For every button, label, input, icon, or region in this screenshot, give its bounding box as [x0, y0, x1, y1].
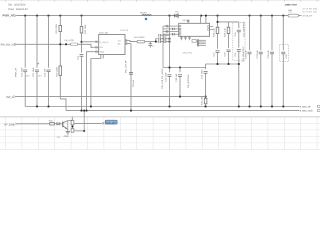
svg-text:PW_D: PW_D — [6, 96, 13, 99]
node — [83, 110, 85, 112]
wire hline A — [206, 63, 239, 65]
capacitor C11 — [80, 55, 84, 57]
svg-text:R12 100k: R12 100k — [84, 24, 87, 34]
resistor R12 — [81, 16, 83, 27]
svg-text:U21 LDO: U21 LDO — [99, 31, 108, 34]
port arrow — [15, 123, 17, 125]
resistor R28 — [217, 22, 219, 28]
wire — [81, 33, 83, 53]
svg-text:C21 10uF: C21 10uF — [20, 67, 23, 77]
node — [81, 41, 83, 43]
wire — [169, 76, 171, 106]
resistor r1 internal — [71, 120, 74, 125]
capacitor C30 — [238, 22, 240, 28]
wire — [179, 76, 181, 96]
capacitor C18 — [179, 68, 181, 73]
transistor Tr1 — [60, 123, 63, 125]
border ruler ticks — [6, 0, 318, 2]
resistor R40 — [50, 122, 54, 125]
capacitor C28 — [227, 50, 231, 52]
title block grid footer — [0, 117, 320, 150]
svg-text:R28 2.2k: R28 2.2k — [212, 27, 215, 37]
wire stub — [299, 15, 302, 17]
series capacitor C16 — [159, 40, 161, 43]
node — [238, 63, 240, 65]
wire — [83, 111, 85, 131]
inductor L2 — [137, 40, 145, 43]
wire column x48.5 — [48, 16, 50, 68]
svg-text:1uH L0603: 1uH L0603 — [134, 36, 145, 39]
dashed option box — [233, 22, 245, 60]
wire collector — [68, 120, 73, 122]
svg-text:C13 22uF: C13 22uF — [164, 72, 167, 82]
node — [179, 67, 181, 69]
diode D3 — [172, 14, 181, 18]
capacitor C33 — [248, 52, 252, 54]
U5 right pins — [210, 27, 214, 30]
resistor R45 — [288, 14, 299, 17]
pin number squares — [96, 40, 127, 53]
port arrow — [14, 14, 17, 16]
svg-text:SIG_BP: SIG_BP — [106, 121, 116, 124]
wire column x205.6 — [205, 64, 207, 69]
svg-text:Cin : 10uF/25V: Cin : 10uF/25V — [8, 4, 26, 7]
svg-text:U5 SW: U5 SW — [183, 19, 191, 22]
component small box — [192, 40, 196, 43]
border top line — [0, 0, 320, 2]
polarity mark — [38, 63, 39, 64]
wire column x25 lower — [24, 72, 26, 107]
wire column x249.5 — [249, 16, 251, 51]
svg-text:PW_1V8_RF: PW_1V8_RF — [125, 60, 128, 73]
wire — [54, 123, 56, 125]
rail1 nodes — [36, 106, 284, 108]
wire return — [74, 130, 84, 132]
svg-text:C35 1uF: C35 1uF — [267, 49, 270, 58]
capacitor C7 shunt — [149, 42, 151, 44]
node — [205, 15, 207, 17]
node — [65, 43, 67, 45]
wire — [130, 74, 132, 110]
svg-text:R21 100k: R21 100k — [55, 23, 58, 33]
IC U3 regulator — [99, 35, 125, 55]
GND rail — [25, 106, 299, 108]
node — [83, 130, 85, 132]
wire column x37 — [36, 16, 38, 68]
wire mid — [72, 125, 74, 129]
wire column x283.3 — [282, 16, 284, 51]
wire base — [18, 123, 50, 125]
svg-text:C12 C13: C12 C13 — [120, 29, 129, 32]
svg-text:C22 10uF: C22 10uF — [32, 67, 35, 77]
wire main top rail — [16, 15, 289, 17]
resistor R21 — [59, 25, 62, 31]
wire VIN — [17, 44, 94, 47]
capacitor C34 — [259, 52, 263, 54]
node — [169, 41, 171, 43]
off page mark — [317, 105, 320, 107]
extra coupling row — [159, 34, 166, 37]
wire signal out — [74, 122, 102, 124]
capacitor C13b — [168, 75, 172, 77]
svg-text:PW_SW_3V3: PW_SW_3V3 — [1, 43, 17, 46]
ferrite bead FB2 — [71, 43, 78, 46]
wire column x48.5 lower — [48, 72, 50, 107]
svg-text:GND: GND — [64, 135, 69, 138]
blue net flag SIG_BP — [105, 120, 117, 124]
svg-text:Cr+0.5V add: Cr+0.5V add — [303, 7, 318, 10]
U5 bottom pins — [182, 36, 190, 40]
svg-text:R31 10k: R31 10k — [201, 96, 204, 105]
wire column x37 lower — [36, 72, 38, 107]
capacitor C36 — [281, 52, 285, 54]
svg-text:P_VIN_A: P_VIN_A — [100, 41, 109, 44]
svg-text:E1V8_RF: E1V8_RF — [303, 15, 313, 18]
node — [179, 96, 181, 98]
wire jog top — [217, 16, 219, 22]
wire IC bottom stub — [91, 55, 101, 107]
wire column x131 — [130, 44, 132, 76]
capacitor C27 — [216, 51, 220, 53]
node — [155, 41, 157, 43]
capacitor C9 — [129, 73, 133, 75]
capacitor C31 — [237, 50, 241, 52]
pin header stubs — [197, 40, 206, 45]
wire NC pin — [125, 43, 131, 45]
wire U5 top pin 2 — [205, 16, 207, 24]
resistor r2 internal — [71, 129, 74, 133]
series capacitor C14 — [159, 37, 161, 40]
wire — [81, 56, 83, 110]
wire hline B — [163, 67, 206, 69]
svg-text:RF_ENB: RF_ENB — [4, 123, 15, 126]
svg-text:SW_CTRL: SW_CTRL — [183, 52, 193, 55]
svg-text:C18 1uF: C18 1uF — [175, 73, 178, 82]
wire EN pin — [82, 41, 94, 43]
wire stub up — [72, 117, 74, 121]
wire U5 top stub — [187, 21, 189, 24]
wire jog — [60, 99, 66, 111]
off page mark — [317, 109, 320, 111]
resistor R31 — [204, 98, 207, 103]
wire column x25 — [24, 16, 26, 68]
capacitor C23 — [47, 70, 51, 72]
no connect X — [102, 122, 104, 124]
capacitor C22 — [35, 70, 39, 72]
svg-text:GND: GND — [100, 51, 105, 54]
node dots on top rail — [24, 15, 284, 17]
wire column x272 — [271, 16, 273, 51]
wire column x260.8 — [260, 16, 262, 51]
capacitor C35 — [270, 52, 274, 54]
svg-text:Cr-0.5V del: Cr-0.5V del — [303, 11, 318, 14]
resistor R22 — [59, 66, 62, 75]
diode bowtie — [57, 122, 60, 125]
wire OUT — [125, 41, 137, 42]
node — [59, 43, 61, 45]
svg-text:B GND_RF: B GND_RF — [300, 106, 312, 109]
svg-text:C32 100nF/50V: C32 100nF/50V — [243, 21, 246, 37]
svg-text:C9 1uF: C9 1uF — [132, 79, 135, 87]
svg-text:C33 1uF: C33 1uF — [245, 49, 248, 58]
resistor R29 — [228, 22, 230, 28]
series capacitor C15 — [164, 37, 166, 40]
IC U5 switch — [179, 23, 210, 36]
wire U5 top pin — [200, 16, 202, 24]
svg-text:VO: VO — [118, 40, 121, 43]
GND2 rail — [66, 110, 299, 112]
svg-text:FB_L0201: FB_L0201 — [65, 39, 75, 42]
port arrow — [14, 43, 17, 45]
node — [205, 96, 207, 98]
series capacitor C17 — [164, 40, 166, 43]
wire IC bottom stub2 — [102, 55, 104, 59]
svg-text:C25 100n: C25 100n — [201, 69, 204, 79]
wire GND pin — [87, 52, 94, 111]
svg-text:FB1SR: FB1SR — [140, 11, 147, 14]
wire — [205, 104, 207, 107]
wire1 — [16, 96, 206, 98]
wire emitter to gnd — [67, 129, 69, 131]
svg-text:C23 1uF: C23 1uF — [44, 68, 47, 77]
wire column x60 mid — [59, 32, 61, 66]
wire branch up — [156, 39, 158, 42]
wire column x60 to jog — [59, 75, 61, 99]
U5 left pins — [163, 26, 179, 67]
wire — [145, 41, 158, 43]
svg-text:PWR_AF: PWR_AF — [15, 67, 18, 77]
svg-text:PW_1V8_RF_AVDD: PW_1V8_RF_AVDD — [161, 68, 164, 88]
svg-text:pattern short: pattern short — [285, 4, 298, 7]
ferrite bead FB1 — [142, 14, 152, 15]
svg-text:R22 100k: R22 100k — [55, 66, 58, 76]
svg-text:C34 1uF: C34 1uF — [256, 49, 259, 58]
wire column x60 — [59, 16, 61, 26]
rail2 nodes — [81, 110, 132, 112]
capacitor C21 — [23, 70, 27, 72]
svg-text:Cout : 22uF/6.3V: Cout : 22uF/6.3V — [8, 8, 28, 11]
node — [169, 38, 171, 40]
node — [72, 126, 74, 128]
node — [169, 67, 171, 69]
dashed option box 2 — [280, 45, 289, 62]
wire column x169.5 — [169, 16, 171, 73]
blue net marker — [145, 18, 147, 20]
svg-text:B GND_SUB: B GND_SUB — [300, 110, 313, 113]
svg-text:R29 2.2k: R29 2.2k — [223, 27, 226, 37]
svg-text:PWR_AF: PWR_AF — [2, 14, 14, 18]
coupling capacitors on pin rows — [166, 25, 174, 36]
capacitor C25 — [204, 72, 208, 74]
wire — [205, 73, 207, 98]
title block top border — [0, 116, 320, 118]
node — [217, 63, 219, 65]
svg-text:SW_BYPASS: SW_BYPASS — [187, 74, 190, 88]
ground — [66, 132, 70, 134]
port arrow — [14, 96, 16, 98]
node — [228, 63, 230, 65]
node — [217, 21, 219, 23]
